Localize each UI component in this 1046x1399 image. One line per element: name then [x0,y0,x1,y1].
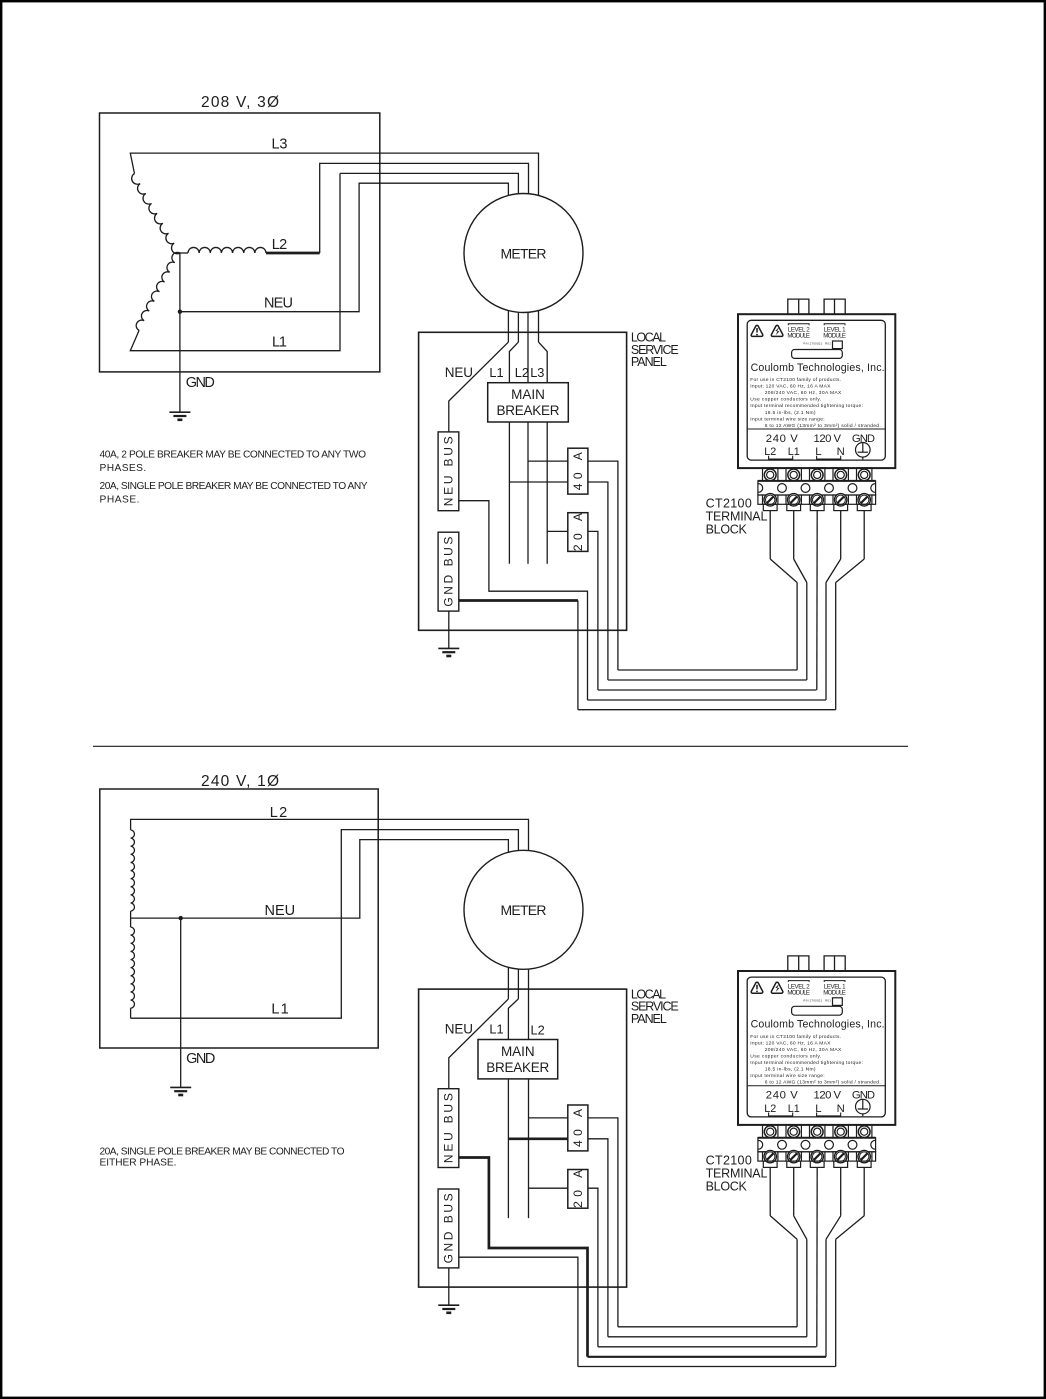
svg-text:L1: L1 [271,1002,288,1018]
svg-text:L2: L2 [764,446,776,458]
svg-text:NEU: NEU [264,296,293,312]
svg-text:PHASES.: PHASES. [100,463,147,474]
svg-text:PHASE.: PHASE. [100,494,140,505]
svg-text:L2: L2 [515,365,529,380]
svg-text:MODULE: MODULE [823,990,846,997]
svg-text:MODULE: MODULE [787,333,810,340]
svg-text:GND: GND [186,1051,215,1067]
svg-text:GND: GND [186,375,215,391]
svg-text:L1: L1 [272,335,287,351]
svg-text:For use in CT2100 family of pr: For use in CT2100 family of products. [750,377,841,383]
svg-text:20A, SINGLE POLE BREAKER MAY B: 20A, SINGLE POLE BREAKER MAY BE CONNECTE… [100,1147,345,1158]
svg-text:18.5 in-lbs, (2.1 Nm): 18.5 in-lbs, (2.1 Nm) [765,410,816,416]
svg-text:208/240 VAC, 60 Hz, 30A MAX: 208/240 VAC, 60 Hz, 30A MAX [765,390,842,396]
svg-text:METER: METER [501,245,547,261]
svg-text:NEU: NEU [445,365,473,380]
svg-text:L3: L3 [272,136,288,152]
svg-text:BLOCK: BLOCK [706,523,748,537]
svg-text:L1: L1 [788,446,800,458]
svg-text:40A, 2 POLE BREAKER MAY BE CON: 40A, 2 POLE BREAKER MAY BE CONNECTED TO … [100,450,367,461]
svg-text:120 V: 120 V [814,1090,842,1102]
svg-text:Input: 120 VAC, 60 Hz, 16 A MA: Input: 120 VAC, 60 Hz, 16 A MAX [750,384,831,390]
svg-text:NEU: NEU [445,1022,473,1037]
svg-text:L2: L2 [272,237,287,253]
svg-text:L2: L2 [531,1023,545,1038]
svg-text:CT2100: CT2100 [706,1153,752,1167]
svg-text:Input terminal recommended tig: Input terminal recommended tightening to… [750,1060,863,1066]
svg-text:Coulomb Technologies, Inc.: Coulomb Technologies, Inc. [751,1019,885,1031]
svg-text:Input: 120 VAC, 60 Hz, 16 A MA: Input: 120 VAC, 60 Hz, 16 A MAX [750,1040,831,1046]
svg-text:MAIN: MAIN [501,1044,535,1059]
svg-text:Coulomb Technologies, Inc.: Coulomb Technologies, Inc. [751,362,885,374]
svg-text:For use in CT2100 family of pr: For use in CT2100 family of products. [750,1034,841,1040]
svg-text:MODULE: MODULE [787,990,810,997]
svg-text:BREAKER: BREAKER [497,403,560,418]
svg-text:18.5 in-lbs, (2.1 Nm): 18.5 in-lbs, (2.1 Nm) [765,1067,816,1073]
svg-text:MAIN: MAIN [511,387,545,402]
svg-text:L1: L1 [489,365,503,380]
svg-text:CT2100: CT2100 [706,497,752,511]
svg-text:L2: L2 [270,805,287,821]
svg-text:PANEL: PANEL [631,1012,667,1026]
svg-text:240 V, 1Ø: 240 V, 1Ø [201,773,279,790]
svg-text:NEU: NEU [265,903,296,919]
svg-text:METER: METER [501,902,547,918]
svg-text:P/N 2700021 R01: P/N 2700021 R01 [803,342,831,346]
svg-text:L1: L1 [489,1022,503,1037]
svg-text:EITHER PHASE.: EITHER PHASE. [100,1158,177,1169]
svg-text:Input terminal wire size range: Input terminal wire size range: [750,416,824,422]
svg-text:208 V, 3Ø: 208 V, 3Ø [201,94,279,111]
svg-text:PANEL: PANEL [631,355,667,369]
svg-text:BLOCK: BLOCK [706,1179,748,1193]
svg-text:240 V: 240 V [766,1090,798,1102]
svg-text:L2: L2 [764,1103,776,1115]
svg-text:20A, SINGLE POLE BREAKER MAY B: 20A, SINGLE POLE BREAKER MAY BE CONNECTE… [100,481,368,492]
svg-text:TERMINAL: TERMINAL [706,1166,768,1180]
svg-text:BREAKER: BREAKER [486,1060,549,1075]
svg-text:L3: L3 [530,365,544,380]
svg-text:6 to 12 AWG (13mm² to 3mm²) so: 6 to 12 AWG (13mm² to 3mm²) solid / stra… [765,423,881,429]
svg-text:208/240 VAC, 60 Hz, 30A MAX: 208/240 VAC, 60 Hz, 30A MAX [765,1047,842,1053]
svg-text:MODULE: MODULE [823,333,846,340]
svg-text:Use copper conductors only.: Use copper conductors only. [750,397,821,403]
svg-text:TERMINAL: TERMINAL [706,510,768,524]
svg-text:L1: L1 [788,1103,800,1115]
svg-text:240 V: 240 V [766,433,798,445]
svg-text:6 to 12 AWG (13mm² to 3mm²) so: 6 to 12 AWG (13mm² to 3mm²) solid / stra… [765,1080,881,1086]
svg-text:120 V: 120 V [814,433,842,445]
svg-text:Input terminal recommended tig: Input terminal recommended tightening to… [750,403,863,409]
svg-text:P/N 2700021 R01: P/N 2700021 R01 [803,998,831,1002]
svg-text:Use copper conductors only.: Use copper conductors only. [750,1053,821,1059]
svg-text:Input terminal wire size range: Input terminal wire size range: [750,1073,824,1079]
